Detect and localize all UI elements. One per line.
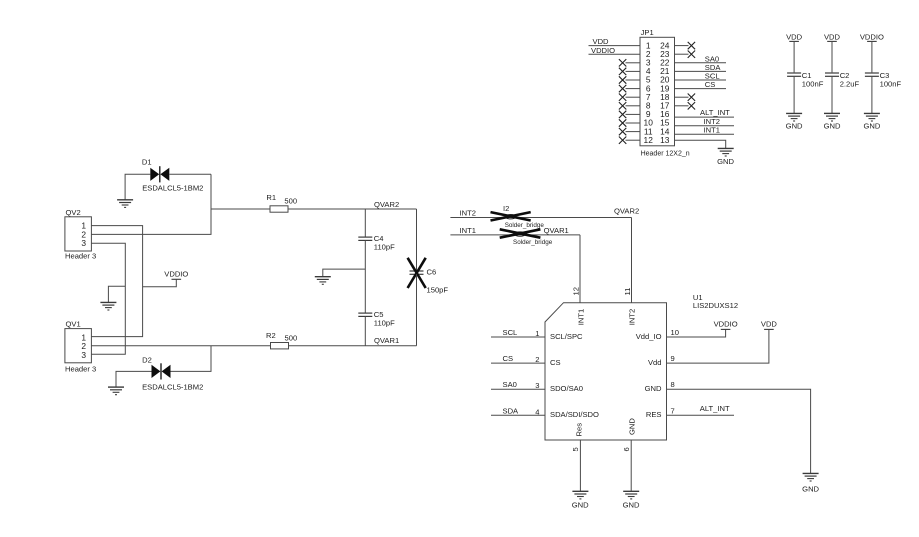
capacitor C3 value 100nF: [880, 79, 902, 88]
svg-text:GND: GND: [572, 501, 589, 510]
wire INT2 from JP1 pin 15: [675, 125, 735, 127]
U1 pin 9 number: [671, 354, 675, 363]
net ALT_INT label at JP1 pin 16: [700, 108, 730, 117]
power VDDIO symbol mid-left: [164, 269, 188, 279]
wire VDD to JP1 pin 1: [589, 45, 641, 47]
svg-text:11: 11: [623, 288, 632, 296]
svg-text:3: 3: [535, 381, 539, 390]
U1 pin SCL/SPC name: [550, 332, 583, 341]
U1 pin 12 number: [572, 287, 581, 295]
U1 pin SDA/SDI/SDO name: [550, 410, 599, 419]
wire D1 left to ground: [125, 174, 150, 200]
svg-text:SDA/SDI/SDO: SDA/SDI/SDO: [550, 410, 599, 419]
svg-text:Header 3: Header 3: [65, 251, 96, 260]
net VDD label at JP1 pin 1: [593, 37, 610, 46]
ground at JP1 pin 13: [718, 148, 734, 156]
wire JP1 pin 18 no-connect: [675, 94, 696, 101]
svg-text:500: 500: [285, 333, 298, 342]
net INT2 label at solder bridge I2: [460, 208, 476, 217]
header QV1: [65, 320, 92, 363]
U1 pin 2 number: [535, 355, 539, 364]
ground at QV column: [100, 302, 116, 310]
wire U1 pin 8 to ground: [667, 389, 811, 473]
wire CS to U1 pin 2: [491, 362, 545, 364]
U1 pin 11 number: [623, 288, 632, 296]
wire C2 to ground: [831, 77, 833, 114]
header JP1 pin numbers right column 24-13: [660, 40, 670, 145]
wire C5 lower segment: [364, 316, 366, 345]
svg-text:12: 12: [572, 287, 581, 295]
net QVAR2 label left: [374, 200, 399, 209]
svg-text:500: 500: [284, 196, 297, 205]
svg-text:CS: CS: [550, 358, 561, 367]
capacitor C6 (not fitted): [410, 271, 424, 274]
svg-text:GND: GND: [623, 501, 640, 510]
svg-text:QV2: QV2: [66, 208, 81, 217]
power VDD symbol at U1: [761, 319, 778, 329]
svg-text:Solder_bridge: Solder_bridge: [505, 222, 545, 229]
svg-text:Solder_bridge: Solder_bridge: [513, 239, 553, 246]
wire JP1 pin 17 no-connect: [675, 102, 696, 109]
wire JP1 pin 3 no-connect: [619, 59, 640, 66]
svg-text:3: 3: [81, 238, 86, 248]
net INT1 label at JP1 pin 14: [704, 125, 720, 134]
GND label at C3: [863, 122, 880, 131]
svg-text:SDO/SA0: SDO/SA0: [550, 384, 583, 393]
svg-text:GND: GND: [824, 122, 841, 131]
wire U1 pin 5 to ground: [579, 440, 581, 491]
wire INT1 to QVAR1 through solder bridge: [450, 234, 580, 236]
wire SCL from JP1 pin 20: [675, 79, 727, 81]
U1 pin Res name: [575, 423, 584, 437]
diode D2 (bidirectional TVS): [152, 363, 171, 379]
wire R2 to QVAR1 node: [289, 345, 417, 347]
wire R1 input: [211, 208, 270, 210]
wire C3 to ground: [871, 77, 873, 114]
wire QV2 pin 3 to QV1 pin 3 (ground column): [91, 243, 125, 354]
wire U1 pin 9 to VDD: [667, 329, 769, 363]
svg-text:SA0: SA0: [503, 380, 517, 389]
capacitor C3: [865, 73, 879, 76]
power VDD symbol above C2: [824, 32, 841, 41]
net INT1 label at solder bridge: [460, 226, 476, 235]
wire INT1 from JP1 pin 14: [675, 133, 735, 135]
svg-text:VDD: VDD: [761, 319, 778, 328]
svg-text:GND: GND: [717, 157, 734, 166]
svg-text:D1: D1: [142, 157, 152, 166]
svg-text:LIS2DUXS12: LIS2DUXS12: [693, 301, 738, 310]
resistor R2: [271, 343, 289, 349]
svg-text:D2: D2: [142, 355, 152, 364]
wire VDDIO to C3: [871, 41, 873, 72]
U1 pin Vdd name: [648, 358, 662, 367]
header JP1: [640, 28, 675, 146]
solder bridge I2 refdes label: [503, 204, 509, 213]
svg-text:GND: GND: [645, 384, 662, 393]
svg-text:VDDIO: VDDIO: [591, 46, 615, 55]
net SDA label at JP1 pin 21: [705, 63, 722, 72]
svg-text:2: 2: [535, 355, 539, 364]
wire VDD to C2: [831, 41, 833, 72]
svg-text:Vdd: Vdd: [648, 358, 662, 367]
U1 pin GND bottom name: [627, 418, 636, 435]
wire JP1 pin 23 no-connect: [675, 51, 696, 58]
svg-text:SCL/SPC: SCL/SPC: [550, 332, 583, 341]
svg-text:C6: C6: [427, 267, 437, 276]
U1 pin 10 number: [671, 328, 679, 337]
capacitor C2: [825, 73, 839, 76]
wire VDD to C1: [793, 41, 795, 72]
wire C1 to ground: [793, 77, 795, 114]
wire ALT_INT from JP1 pin 16: [675, 116, 735, 118]
resistor R2 refdes label: [266, 331, 276, 340]
U1 pin 8 number: [671, 380, 675, 389]
svg-text:INT2: INT2: [460, 208, 476, 217]
wire JP1 pin 8 no-connect: [619, 102, 640, 109]
svg-text:CS: CS: [503, 354, 514, 363]
svg-text:QVAR1: QVAR1: [374, 336, 399, 345]
net VDDIO label at JP1 pin 2: [591, 46, 615, 55]
svg-text:CS: CS: [705, 80, 716, 89]
ground at U1 pin 5: [572, 491, 588, 499]
svg-text:GND: GND: [627, 418, 636, 435]
diode D1 refdes label: [142, 157, 152, 166]
capacitor C2 value 2.2uF: [840, 79, 860, 88]
capacitor C4: [358, 237, 372, 240]
wire JP1 pin 6 no-connect: [619, 85, 640, 92]
wire JP1 pin 10 no-connect: [619, 119, 640, 126]
wire C4 to C5 segment: [364, 240, 366, 313]
net CS label at JP1 pin 19: [705, 80, 716, 89]
net QVAR1 label left: [374, 336, 399, 345]
wire JP1 pin 4 no-connect: [619, 68, 640, 75]
U1 pin GND name: [645, 384, 662, 393]
net ALT_INT label at U1 pin 7: [700, 404, 730, 413]
capacitor C1 value 100nF: [802, 79, 824, 88]
U1 pin RES name: [646, 410, 662, 419]
net SDA label at U1 pin 4: [503, 406, 520, 415]
svg-text:QV1: QV1: [66, 320, 81, 329]
svg-text:SDA: SDA: [503, 406, 520, 415]
svg-text:R2: R2: [266, 331, 276, 340]
svg-text:INT1: INT1: [460, 226, 476, 235]
resistor R1 refdes label: [266, 193, 276, 202]
wire D2 left to ground: [116, 371, 152, 387]
solder bridge 2 not-fitted cross: [500, 229, 541, 237]
net SCL label at JP1 pin 20: [705, 72, 720, 81]
net SCL label at U1 pin 1: [503, 328, 518, 337]
svg-text:Res: Res: [575, 423, 584, 437]
net INT2 label at JP1 pin 15: [704, 117, 720, 126]
svg-text:QVAR2: QVAR2: [374, 200, 399, 209]
svg-text:Header 3: Header 3: [65, 365, 96, 374]
wire INT2 to QVAR2 through I2: [450, 217, 631, 219]
wire QVAR2 down to U1 pin 11: [631, 218, 633, 303]
wire QVAR1 down to U1 pin 12: [579, 235, 581, 303]
GND label at U1 pin 6 ground: [623, 501, 640, 510]
U1 pin SDO/SA0 name: [550, 384, 583, 393]
svg-text:12: 12: [644, 135, 654, 145]
svg-text:100nF: 100nF: [880, 79, 902, 88]
op-amp U1 body (LIS2DUXS12 accelerometer): [545, 303, 667, 440]
ground at D2: [108, 387, 124, 395]
svg-text:2.2uF: 2.2uF: [840, 79, 860, 88]
wire C6 lower segment: [416, 274, 418, 345]
svg-text:QVAR2: QVAR2: [614, 206, 639, 215]
wire U1 pin 10 to VDDIO: [667, 329, 726, 337]
net SA0 label at JP1 pin 22: [705, 54, 719, 63]
wire U1 pin 7 ALT_INT: [667, 414, 735, 416]
svg-text:150pF: 150pF: [427, 286, 449, 295]
wire JP1 pin 7 no-connect: [619, 94, 640, 101]
wire JP1 pin 11 no-connect: [619, 128, 640, 135]
wire JP1 pin 5 no-connect: [619, 76, 640, 83]
svg-text:VDDIO: VDDIO: [164, 269, 188, 278]
header QV1 value label: [65, 365, 96, 374]
header QV2 value label: [65, 251, 96, 260]
wire ground tap: [108, 286, 125, 302]
svg-text:3: 3: [81, 350, 86, 360]
capacitor C6 refdes label: [427, 267, 437, 276]
wire SA0 from JP1 pin 22: [675, 62, 727, 64]
capacitor C2 refdes label: [840, 71, 850, 80]
capacitor C6 not-fitted cross: [408, 258, 426, 288]
svg-text:VDD: VDD: [824, 32, 841, 41]
diode D2 refdes label: [142, 355, 152, 364]
svg-text:9: 9: [671, 354, 675, 363]
solder bridge I2 not-fitted cross: [491, 212, 531, 220]
wire D1 right: [169, 173, 211, 175]
svg-text:VDDIO: VDDIO: [860, 32, 884, 41]
svg-text:GND: GND: [863, 122, 880, 131]
svg-text:ALT_INT: ALT_INT: [700, 404, 730, 413]
ground at C4/C5 midpoint: [315, 277, 331, 285]
diode D1 (bidirectional TVS): [150, 166, 169, 182]
wire JP1 pin 9 no-connect: [619, 111, 640, 118]
GND label at C1: [786, 122, 803, 131]
U1 pin 4 number: [535, 407, 539, 416]
U1 pin 1 number: [535, 329, 539, 338]
wire SDA from JP1 pin 21: [675, 70, 727, 72]
U1 pin 5 number: [571, 447, 580, 451]
U1 pin Vdd_IO name: [636, 332, 662, 341]
svg-text:Header 12X2_n: Header 12X2_n: [641, 151, 690, 158]
svg-text:110pF: 110pF: [374, 242, 395, 251]
U1 pin 6 number: [622, 447, 631, 451]
capacitor C5 refdes label: [374, 310, 384, 319]
svg-text:GND: GND: [786, 122, 803, 131]
U1 pin 7 number: [671, 406, 675, 415]
net CS label at U1 pin 2: [503, 354, 514, 363]
svg-text:1: 1: [535, 329, 539, 338]
wire R1 to QVAR2 node: [288, 208, 417, 210]
ground at U1 pin 6: [623, 491, 639, 499]
svg-text:INT1: INT1: [704, 125, 720, 134]
capacitor C5 value 110pF: [374, 318, 395, 327]
solder bridge 2 value label: [513, 239, 553, 246]
header JP1 value label: [641, 151, 690, 158]
capacitor C6 value 150pF: [427, 286, 449, 295]
wire VDDIO tap: [143, 280, 177, 287]
net QVAR1 label right: [544, 226, 569, 235]
svg-text:SCL: SCL: [503, 328, 518, 337]
svg-text:6: 6: [622, 447, 631, 451]
U1 pin INT2 name: [628, 309, 637, 325]
wire QV1 pin 2 to R2 (bottom run): [91, 345, 270, 347]
wire C4/C5 branch upper segment: [364, 209, 366, 237]
svg-text:I2: I2: [503, 204, 509, 213]
U1 pin INT1 name: [576, 309, 585, 325]
power VDDIO symbol at U1: [714, 319, 738, 329]
capacitor C5: [358, 313, 372, 316]
svg-text:7: 7: [671, 406, 675, 415]
svg-text:110pF: 110pF: [374, 318, 395, 327]
header JP1 pin numbers left column 1-12: [644, 40, 654, 145]
wire VDDIO to JP1 pin 2: [589, 53, 641, 55]
ground at C2: [824, 113, 840, 121]
net QVAR2 label right: [614, 206, 639, 215]
power VDDIO symbol above C3: [860, 32, 884, 41]
solder bridge I2 (not fitted): [505, 215, 515, 219]
resistor R1: [270, 206, 288, 212]
svg-text:INT2: INT2: [628, 309, 637, 325]
wire SCL to U1 pin 1: [491, 336, 545, 338]
wire QV2 pin 1 to QV1 pin 1 (VDDIO column): [91, 226, 142, 337]
header QV2: [65, 208, 92, 251]
wire SDA to U1 pin 4: [491, 414, 545, 416]
svg-text:ESDALCL5-1BM2: ESDALCL5-1BM2: [142, 184, 203, 193]
ground at U1 pin 8: [803, 473, 819, 481]
svg-text:5: 5: [571, 447, 580, 451]
svg-text:QVAR1: QVAR1: [544, 226, 569, 235]
wire QV2 pin 2 to D1 and R1 node: [91, 174, 211, 234]
svg-text:INT1: INT1: [576, 309, 585, 325]
U1 pin CS name: [550, 358, 561, 367]
svg-text:4: 4: [535, 407, 539, 416]
wire JP1 pin 24 no-connect: [675, 42, 696, 49]
svg-text:VDDIO: VDDIO: [714, 319, 738, 328]
wire D2 branch down: [170, 346, 212, 372]
diode D1 value ESDALCL5-1BM2: [142, 184, 203, 193]
wire JP1 pin 12 no-connect: [619, 137, 640, 144]
wire C6 branch upper segment: [416, 209, 418, 271]
svg-text:10: 10: [671, 328, 679, 337]
ground at D1: [117, 200, 133, 208]
svg-text:ESDALCL5-1BM2: ESDALCL5-1BM2: [142, 383, 203, 392]
svg-text:R1: R1: [266, 193, 276, 202]
U1 refdes label: [693, 293, 703, 302]
ground at C1: [786, 113, 802, 121]
svg-text:JP1: JP1: [641, 28, 654, 37]
wire CS from JP1 pin 19: [675, 88, 727, 90]
U1 value LIS2DUXS12: [693, 301, 738, 310]
solder bridge I2 value label: [505, 222, 545, 229]
wire SA0 to U1 pin 3: [491, 388, 545, 390]
GND label at U1 pin 8 ground: [802, 485, 819, 494]
svg-text:13: 13: [660, 135, 670, 145]
capacitor C1: [787, 73, 801, 76]
power VDD symbol above C1: [786, 32, 803, 41]
svg-text:VDD: VDD: [593, 37, 610, 46]
svg-text:RES: RES: [646, 410, 662, 419]
wire JP1 pin 13 to ground: [675, 140, 726, 148]
capacitor C1 refdes label: [802, 71, 812, 80]
svg-text:GND: GND: [802, 485, 819, 494]
capacitor C4 refdes label: [374, 234, 384, 243]
GND label at C2: [824, 122, 841, 131]
svg-text:Vdd_IO: Vdd_IO: [636, 332, 662, 341]
svg-text:100nF: 100nF: [802, 79, 824, 88]
resistor R2 value 500: [285, 333, 298, 342]
resistor R1 value 500: [284, 196, 297, 205]
wire mid ground branch: [323, 269, 366, 277]
svg-text:VDD: VDD: [786, 32, 803, 41]
U1 pin 3 number: [535, 381, 539, 390]
net SA0 label at U1 pin 3: [503, 380, 517, 389]
capacitor C4 value 110pF: [374, 242, 395, 251]
GND label at U1 pin 5 ground: [572, 501, 589, 510]
wire U1 pin 6 to ground: [630, 440, 632, 491]
diode D2 value ESDALCL5-1BM2: [142, 383, 203, 392]
ground at C3: [864, 113, 880, 121]
svg-text:8: 8: [671, 380, 675, 389]
GND label at JP1 pin 13: [717, 157, 734, 166]
capacitor C3 refdes label: [880, 71, 890, 80]
solder bridge 2 (not fitted): [515, 232, 525, 236]
